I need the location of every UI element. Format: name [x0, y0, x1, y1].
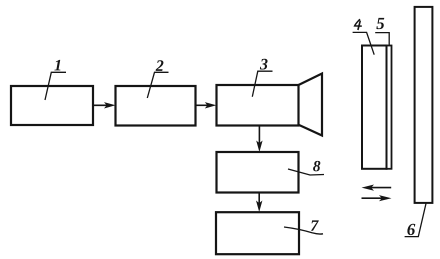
leader line for label 4: [353, 32, 375, 54]
label 8: [313, 161, 320, 171]
horn trapezoid at output of block 3: [299, 74, 323, 136]
leader line for label 2: [147, 72, 168, 98]
label 2: [156, 60, 164, 71]
leader line for label 3: [252, 71, 272, 97]
label 6: [407, 224, 415, 235]
label 3: [260, 59, 268, 70]
motion arrow pointing left: [370, 187, 391, 189]
leader line for label 6: [405, 204, 426, 237]
wire arrow from block 1 to block 2: [93, 104, 110, 106]
wire arrow from block 2 to block 3: [196, 104, 211, 106]
leader line for label 8: [288, 169, 324, 175]
block 1: [11, 86, 93, 125]
wire from block 3 down to block 8: [258, 126, 260, 148]
plate 4 (tall rectangle): [362, 46, 387, 169]
block 2: [116, 86, 196, 126]
label 4: [355, 19, 362, 26]
plate 6 (tall rectangle at right): [415, 7, 433, 203]
layer 5 (thin strip on plate 4): [387, 46, 392, 169]
leader line for label 5: [375, 33, 389, 46]
leader line for label 7: [284, 227, 323, 234]
motion arrow pointing right: [362, 197, 383, 199]
label 1: [54, 60, 60, 71]
leader line for label 1: [45, 72, 66, 100]
block 7: [216, 212, 299, 254]
block 3: [217, 85, 299, 126]
block 8: [217, 152, 299, 193]
label 5: [376, 18, 384, 29]
label 7: [311, 220, 319, 230]
wire from block 8 down to block 7: [258, 193, 260, 208]
